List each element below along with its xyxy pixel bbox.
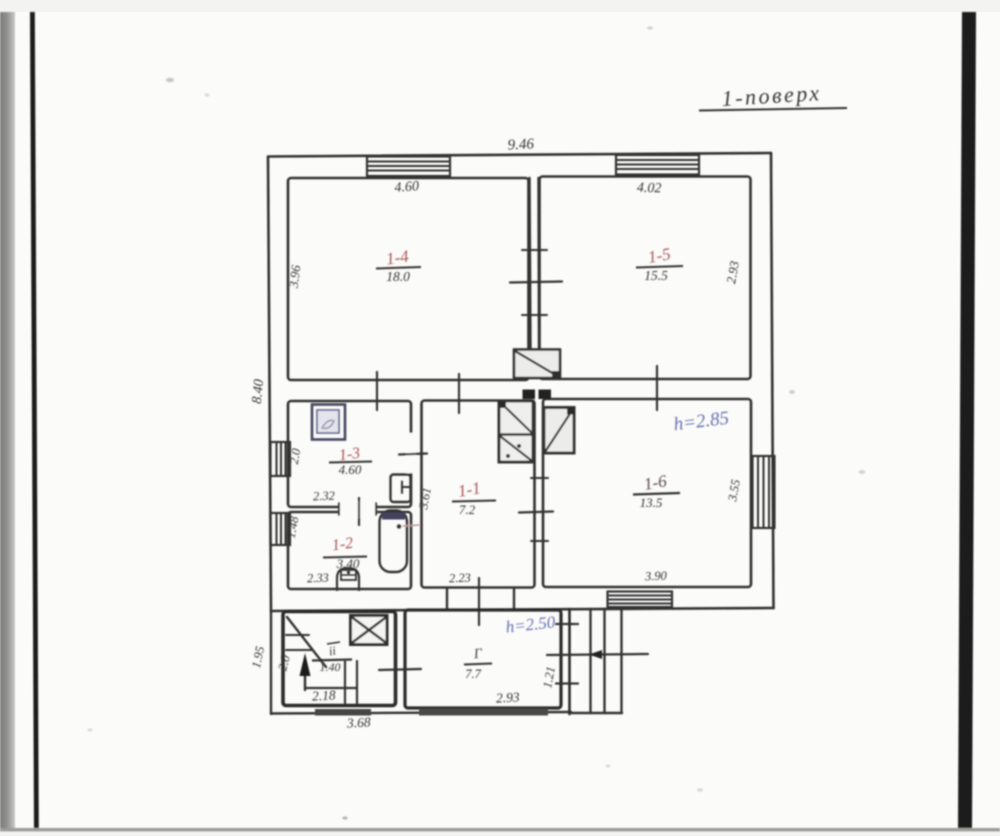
door tick upper on 1-4/1-5 wall [522, 249, 547, 251]
door cap upper 1-1/1-6 [531, 477, 548, 479]
door cap lower 1-1/1-6 [531, 540, 548, 542]
label room 1-2 [331, 535, 354, 555]
window bottom wall room 1-6 [608, 592, 673, 608]
label room 1-4 [385, 246, 411, 268]
svg-text:4.02: 4.02 [637, 181, 662, 197]
top light strip [0, 0, 1000, 12]
svg-text:7.7: 7.7 [465, 667, 481, 681]
window right wall room 1-6 [753, 456, 775, 528]
bathtub in 1-2 [380, 511, 420, 573]
door tick 1-3/1-2 [358, 498, 360, 525]
svg-text:1-5: 1-5 [646, 244, 672, 267]
svg-text:2.33: 2.33 [307, 571, 329, 586]
window left wall room 1-2 [271, 513, 291, 545]
door tick lower on 1-4/1-5 wall [522, 314, 547, 316]
svg-text:2.93: 2.93 [496, 689, 521, 705]
door opening 1-3/1-2 white gap [338, 501, 377, 518]
svg-text:4.60: 4.60 [394, 179, 419, 196]
svg-text:13.5: 13.5 [640, 495, 663, 510]
dark sill vestibule [419, 709, 548, 716]
vent black square left [523, 390, 536, 400]
lower stair flight [305, 661, 357, 704]
scan specks [87, 26, 865, 819]
entrance arrow [547, 650, 648, 659]
svg-text:1-6: 1-6 [642, 471, 668, 494]
svg-text:2.18: 2.18 [312, 687, 337, 703]
right scan black bar [958, 12, 976, 828]
left scan gradient bar [0, 12, 15, 828]
svg-text:3.68: 3.68 [346, 714, 372, 730]
window left wall room 1-3 [271, 442, 291, 476]
vent black square right [539, 390, 552, 400]
left scan black line [30, 12, 39, 828]
title 1-поверх [699, 80, 847, 111]
svg-text:18.0: 18.0 [386, 269, 410, 284]
svg-text:7.2: 7.2 [459, 502, 476, 517]
washing machine in 1-3 [312, 405, 345, 440]
svg-text:1-4: 1-4 [385, 246, 411, 268]
sink in 1-3 [391, 475, 411, 503]
svg-text:2.0: 2.0 [287, 447, 304, 466]
door ticks vestibule right wall [556, 623, 578, 625]
vestibule outline [405, 610, 561, 708]
label room 1-3 [338, 445, 361, 465]
door jambs bottom wall 1-1 to vestibule [446, 589, 448, 610]
wall: right outer [771, 153, 774, 608]
wall: left outer [268, 157, 271, 611]
door tick middle wall below 1-4 right [458, 374, 460, 413]
svg-text:9.46: 9.46 [507, 136, 535, 153]
door tick middle wall below 1-4 left [376, 372, 378, 410]
door opening 1-3 to 1-1 white gap [406, 433, 416, 473]
door tick middle wall below 1-5 [656, 366, 658, 410]
wall: bottom outer [271, 608, 774, 611]
svg-text:3.40: 3.40 [336, 556, 360, 571]
svg-text:1.40: 1.40 [320, 660, 341, 674]
staircase diagonal [287, 617, 326, 667]
svg-text:1-2: 1-2 [331, 535, 354, 555]
door leaf line between 1-4/1-5 [510, 282, 562, 283]
dark sill stairs room [315, 709, 371, 716]
svg-text:4.60: 4.60 [339, 462, 362, 477]
door jamb left 1-3/1-2 [338, 503, 340, 515]
stair direction arrow [300, 653, 311, 690]
stove box in 1-1 [499, 401, 533, 462]
door jamb right 1-3/1-2 [375, 503, 377, 515]
svg-text:3.90: 3.90 [644, 569, 668, 584]
svg-text:3.96: 3.96 [286, 264, 304, 290]
window top wall room 1-5 [616, 155, 699, 175]
stove box in 1-6 [544, 408, 574, 454]
wall between 1-4 and 1-5 [530, 178, 531, 350]
hatched X box in stairs room [351, 616, 388, 645]
svg-text:2.32: 2.32 [313, 489, 335, 504]
label room 1-1 [456, 478, 482, 501]
bottom scan line [0, 828, 1000, 831]
label room 1-5 [646, 244, 672, 267]
wall: top outer [268, 153, 771, 157]
window top wall room 1-4 [367, 157, 450, 177]
toilet in 1-2 [337, 568, 359, 590]
stair step lines [286, 634, 309, 636]
door leaf 1-3 to 1-1 [399, 454, 427, 455]
door stairs room to vestibule [379, 669, 421, 670]
stairs room outline [270, 611, 272, 714]
flue box between 1-4 and 1-5 [514, 350, 560, 379]
vestibule right outer wall [568, 609, 571, 714]
bottom light strip [0, 830, 1000, 836]
svg-text:1-1: 1-1 [456, 478, 482, 501]
svg-text:8.40: 8.40 [250, 379, 267, 405]
porch steps [571, 609, 622, 713]
label vestibule room I [472, 647, 484, 663]
label room 1-6 [642, 471, 668, 494]
svg-text:2.23: 2.23 [449, 571, 471, 586]
svg-text:15.5: 15.5 [644, 268, 668, 283]
door tick bottom wall 1-1 [478, 578, 480, 625]
door leaf 1-1 to 1-6 [519, 512, 553, 513]
